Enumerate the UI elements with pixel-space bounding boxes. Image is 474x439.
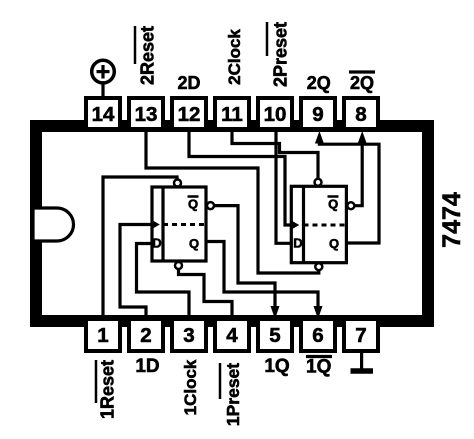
pin 11 box — [215, 98, 249, 129]
svg-text:6: 6 — [312, 324, 323, 347]
label 1Qbar (pin 6) — [306, 357, 332, 378]
pin 13 box — [129, 98, 163, 129]
pin 2 box — [129, 319, 163, 351]
svg-text:2Q: 2Q — [307, 73, 331, 93]
svg-text:2Q: 2Q — [350, 73, 374, 93]
pin 7 box — [344, 319, 378, 351]
svg-text:Q: Q — [188, 197, 198, 212]
label 1Preset (pin 4) — [220, 363, 243, 426]
svg-text:Q: Q — [328, 197, 338, 212]
svg-text:3: 3 — [183, 324, 194, 347]
wire FF1 Q output to pin6 — [205, 242, 318, 308]
svg-text:2D: 2D — [177, 73, 200, 93]
pin 6 box — [301, 319, 335, 351]
svg-text:12: 12 — [178, 103, 201, 126]
svg-text:5: 5 — [269, 324, 280, 347]
wire pin3 to FF1 D input — [137, 244, 190, 321]
svg-text:10: 10 — [264, 103, 287, 126]
wire pin13 to FF2 reset bubble — [146, 131, 319, 273]
U1B reset bubble (bottom) — [315, 263, 322, 270]
svg-text:2Preset: 2Preset — [271, 22, 291, 87]
pin 5 box — [258, 319, 292, 351]
svg-text:7474: 7474 — [438, 192, 466, 248]
U1B dashed divider — [304, 224, 347, 227]
wire pin10 to FF2 D input — [276, 131, 291, 243]
notch (pin-1 index notch on left edge) — [33, 208, 74, 241]
flip-flop U1A body — [152, 187, 206, 261]
U1B preset bubble (top) — [315, 179, 322, 186]
pin 9 box — [301, 98, 335, 129]
wire pin2 to FF1 clock — [120, 225, 152, 321]
arrowhead into pin 6 — [314, 306, 323, 319]
flip-flop U1B body — [291, 186, 346, 262]
svg-text:Q: Q — [189, 236, 199, 251]
IC body U1 (7474 DIP outline) — [36, 126, 428, 321]
svg-text:13: 13 — [135, 103, 158, 126]
label 2Reset (pin 13) — [135, 26, 158, 85]
svg-text:2Clock: 2Clock — [225, 29, 244, 85]
svg-text:2: 2 — [140, 324, 151, 347]
svg-text:9: 9 — [312, 103, 323, 126]
pin 1 box — [86, 319, 120, 351]
wire pin1 to FF1 reset bubble — [103, 177, 177, 319]
power symbol (+ supply on pin 14) — [92, 60, 115, 97]
U1A reset bubble (top) — [174, 180, 181, 187]
wire FF2 Qbar output to pin8 — [354, 142, 362, 206]
svg-text:4: 4 — [226, 324, 238, 347]
pin 14 box — [86, 98, 120, 129]
svg-text:D: D — [152, 236, 161, 251]
arrowhead into pin 5 — [271, 306, 280, 319]
ground symbol (pin 7) — [351, 352, 374, 371]
arrowhead into pin 9 — [315, 131, 324, 144]
label 2Preset (pin 10) — [267, 22, 291, 87]
svg-text:1Preset: 1Preset — [223, 363, 243, 426]
svg-text:2Reset: 2Reset — [138, 26, 158, 85]
U1A input column divider — [161, 187, 164, 261]
pin 12 box — [172, 98, 206, 129]
pin 3 box — [172, 319, 206, 351]
svg-text:1Reset: 1Reset — [98, 360, 118, 419]
svg-text:8: 8 — [355, 103, 366, 126]
svg-text:1: 1 — [97, 324, 108, 347]
svg-text:1Clock: 1Clock — [181, 359, 200, 415]
label 1Reset (pin 1) — [96, 360, 118, 419]
arrowhead into pin 8 — [358, 131, 367, 144]
U1B input column divider — [302, 186, 305, 262]
svg-text:1Q: 1Q — [264, 356, 289, 377]
label 2Qbar (pin 8) — [349, 72, 375, 93]
U1B clock triangle — [291, 221, 299, 230]
svg-text:D: D — [293, 236, 302, 251]
wire pin4 to FF1 preset bubble — [179, 270, 233, 321]
pin 4 box — [215, 319, 249, 351]
svg-text:1Q: 1Q — [306, 357, 331, 378]
pin 10 box — [258, 98, 292, 129]
svg-text:7: 7 — [355, 324, 366, 347]
svg-text:11: 11 — [221, 103, 243, 126]
U1A clock triangle — [152, 220, 160, 229]
svg-text:14: 14 — [92, 103, 115, 126]
pin 8 box — [344, 98, 378, 129]
wire pin12 to FF2 clock — [189, 131, 291, 225]
wire FF2 Q output to pin9 — [319, 142, 379, 243]
svg-text:Q: Q — [329, 236, 339, 251]
U1A dashed divider — [163, 223, 206, 226]
U1B Qbar bubble — [347, 202, 354, 209]
svg-text:1D: 1D — [135, 356, 159, 377]
U1A preset bubble (bottom) — [175, 262, 182, 269]
wire FF1 Qbar output to pin5 — [214, 206, 275, 308]
U1A Qbar bubble — [207, 202, 214, 209]
wire pin11 to FF2 preset bubble — [232, 131, 318, 179]
